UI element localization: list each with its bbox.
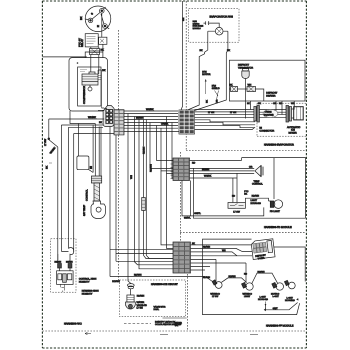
svg-text:4-WIRE: 4-WIRE [265, 111, 273, 114]
svg-text:RELAY: RELAY [81, 39, 84, 47]
label FAN MOTOR with arrow [202, 71, 211, 94]
ice maker dashed box [257, 103, 306, 136]
svg-text:RD: RD [192, 161, 196, 164]
thermostat barrel [91, 176, 101, 201]
compressor housing [69, 52, 107, 111]
border frame dashed [42, 1, 306, 348]
svg-text:LT GN: LT GN [230, 111, 237, 114]
svg-text:WATER-D: WATER-D [210, 293, 220, 296]
automatic ice maker box [294, 107, 304, 120]
FF box right side [274, 247, 305, 282]
wires into FF connector from left [110, 127, 205, 277]
svg-text:WH: WH [130, 175, 133, 179]
svg-text:HEATER: HEATER [266, 94, 275, 97]
svg-text:GN: GN [182, 17, 185, 21]
svg-text:CONTROL, HIGH: CONTROL, HIGH [79, 278, 97, 281]
svg-text:(SQUARE): (SQUARE) [264, 114, 274, 117]
label DEFROST TERMINATOR [238, 64, 253, 70]
svg-text:LT SW: LT SW [44, 138, 47, 146]
wire staple joint [58, 248, 74, 263]
label BK arrow at compressor [80, 16, 83, 20]
svg-text:WH/BK: WH/BK [88, 116, 96, 119]
FD light switch box [228, 203, 245, 214]
svg-text:M: M [97, 25, 99, 28]
rotated label RELAY-PTC START [79, 38, 85, 47]
evaporator fan motor [187, 23, 228, 111]
wire GN/Y tail [264, 298, 299, 311]
label LIGHT HOUSING FD [251, 199, 262, 205]
label HARNESS-HIGH HUMIDITY [82, 290, 99, 296]
svg-text:RD/WH: RD/WH [229, 275, 237, 278]
svg-text:OR: OR [216, 99, 219, 103]
svg-text:MOTOR: MOTOR [202, 73, 211, 76]
svg-text:PTC: PTC [244, 190, 249, 193]
svg-text:BK: BK [227, 49, 231, 52]
svg-text:BK: BK [46, 165, 49, 169]
svg-text:RD/BK: RD/BK [143, 147, 146, 154]
svg-text:S/C TEMP: S/C TEMP [83, 204, 86, 216]
label DEFROST HEATER [266, 92, 278, 98]
svg-text:COLOR AND/OR MARKING: COLOR AND/OR MARKING [155, 323, 182, 326]
FF bundle wires to timer [191, 245, 253, 283]
svg-text:SHIELD: SHIELD [212, 87, 220, 90]
identify leads dashes [124, 323, 151, 325]
svg-text:BK: BK [99, 121, 102, 124]
svg-text:HOUS-NG: HOUS-NG [258, 298, 268, 301]
svg-text:DUAL: DUAL [154, 308, 160, 311]
svg-text:MAKER: MAKER [289, 132, 298, 135]
fan shield ground [212, 85, 220, 103]
label TEMP CONTROL [252, 180, 263, 186]
section divider dashed vertical evaporator [185, 1, 187, 150]
svg-text:GN/Y: GN/Y [273, 307, 279, 310]
svg-text:BK/WH: BK/WH [55, 261, 62, 264]
connector stubs BK/WH [55, 261, 74, 268]
bulb motr-d light 2 [271, 283, 283, 299]
svg-text:BK: BK [200, 49, 204, 52]
wire BK inside housing [98, 49, 106, 109]
svg-text:CONNECTOR: CONNECTOR [259, 130, 274, 133]
svg-text:BK/WH: BK/WH [66, 261, 73, 264]
note text block [193, 20, 204, 30]
IM connector wires [259, 110, 286, 118]
wire to light switch [48, 119, 50, 138]
svg-text:DEFROST: DEFROST [238, 64, 250, 67]
wires compressor housing to connector [102, 109, 107, 111]
svg-text:HARNESS-ICE CIRCUIT: HARNESS-ICE CIRCUIT [151, 283, 178, 286]
label WH/BK diagonal [49, 146, 56, 154]
svg-text:PTC ST: PTC ST [79, 38, 82, 47]
svg-text:BK: BK [102, 69, 106, 72]
label WATER VALVE [137, 301, 148, 310]
wire GN/YL FD [182, 181, 264, 220]
svg-text:FAN: FAN [202, 71, 207, 74]
ice circuit dashed box [119, 280, 185, 317]
svg-text:IM: IM [259, 127, 262, 130]
svg-text:BK: BK [80, 16, 83, 20]
svg-text:MOTR-D: MOTR-D [271, 293, 280, 296]
svg-text:RD/WH: RD/WH [258, 270, 266, 273]
fuse component on wire [142, 198, 146, 211]
svg-text:AUTOMATIC: AUTOMATIC [287, 126, 301, 129]
svg-text:BK: BK [101, 49, 105, 52]
section divider dashed vertical center [118, 30, 120, 280]
rotated wire labels BK OR [206, 99, 219, 103]
svg-text:DEFROST: DEFROST [266, 92, 278, 95]
svg-text:LIGHT: LIGHT [251, 199, 258, 202]
rotated label COMPRESSOR [83, 86, 86, 104]
svg-text:WH: WH [248, 83, 252, 86]
section divider dashed horizontal HARNESS-FD MODULE bottom [180, 231, 306, 233]
svg-text:LT GN: LT GN [208, 111, 215, 114]
svg-text:HOUSING: HOUSING [285, 299, 295, 302]
label HARNESS-FD MODULE [264, 226, 292, 229]
svg-text:ICE: ICE [291, 129, 295, 132]
svg-text:WH/BK: WH/BK [146, 108, 154, 111]
svg-text:HARNESS-EVAPORATOR: HARNESS-EVAPORATOR [264, 144, 294, 147]
defrost timer box [251, 239, 275, 261]
wire RD/WH to water valve [112, 280, 144, 298]
FF wire labels [192, 242, 226, 252]
ground wire GN vertical [181, 1, 185, 110]
wires below defrost box [247, 101, 295, 114]
connector evaporator harness (dark) [179, 110, 195, 134]
damper temp control [255, 165, 263, 177]
svg-text:RD: RD [232, 195, 236, 198]
section divider dashed vertical FD/FF [180, 152, 187, 331]
svg-text:MODELS: MODELS [193, 27, 202, 30]
svg-text:S: S [91, 12, 95, 16]
svg-text:L-GHT: L-GHT [260, 296, 267, 299]
label HARNESS-WC [64, 323, 82, 326]
svg-text:LT SW: LT SW [233, 211, 240, 214]
wire thermostat feed [70, 111, 101, 176]
svg-text:RD/WH: RD/WH [252, 195, 260, 198]
rotated label BK lower [46, 163, 53, 169]
svg-text:WH: WH [222, 249, 226, 252]
FD wire rows [190, 158, 275, 199]
svg-text:RD/WH: RD/WH [203, 246, 211, 249]
label VALVE WATER DUAL [154, 305, 183, 327]
svg-text:BK: BK [230, 83, 234, 86]
svg-text:VALVE-FD: VALVE-FD [137, 304, 148, 307]
svg-text:TEMP: TEMP [254, 180, 261, 183]
svg-text:LT GN: LT GN [137, 307, 144, 310]
svg-text:EVAPORATOR FAN: EVAPORATOR FAN [210, 16, 233, 19]
label LIGHT HOUSING w arrow [258, 296, 268, 307]
svg-text:WH/BK: WH/BK [49, 146, 56, 154]
svg-text:BK/WH: BK/WH [202, 168, 210, 171]
svg-text:RD/WH: RD/WH [137, 295, 145, 298]
label HARNESS-FF MODULE [266, 325, 294, 328]
identify leads text [155, 321, 182, 327]
FD module connector [173, 158, 190, 181]
bottom tick marks [85, 332, 258, 335]
humidity control dashed box [51, 239, 76, 292]
wire left pair from connector [61, 125, 114, 252]
svg-text:L-GHT: L-GHT [273, 295, 280, 298]
bulb water-d lt sw [210, 280, 222, 298]
wire band between connectors [124, 111, 179, 131]
IM connector right [286, 106, 294, 123]
central vertical wires [128, 114, 173, 285]
FD module box [193, 158, 305, 219]
overload protector [90, 44, 103, 54]
compressor terminal circle [85, 6, 111, 37]
FD light switch wires [232, 173, 249, 202]
svg-text:HOUS-NG: HOUS-NG [251, 202, 262, 205]
relay-PTC start box [85, 34, 107, 47]
FD wire labels [192, 161, 253, 177]
section divider dashed horizontal bottom strip [42, 330, 306, 332]
label 4-WIRE SQUARE oval [263, 110, 278, 118]
IM connector left [254, 106, 260, 123]
label CONTROL HIGH HUMIDITY [79, 278, 97, 284]
svg-text:FD LIGHT: FD LIGHT [270, 210, 281, 213]
svg-text:WH/BK: WH/BK [204, 175, 212, 178]
FD light bulb [245, 195, 282, 213]
compressor terminal labels [91, 12, 100, 28]
svg-text:LT SW: LT SW [212, 295, 218, 298]
svg-text:LIGHT: LIGHT [244, 295, 251, 298]
evaporator fan dashed box [189, 9, 239, 43]
rotated label CONTROL TEMP [83, 189, 89, 216]
defrost terminator symbol [242, 69, 249, 119]
defrost heater elements [229, 83, 263, 101]
svg-text:WATER-D: WATER-D [243, 293, 253, 296]
svg-text:WATER: WATER [137, 301, 145, 304]
rotated label RD/BK on wire [130, 147, 152, 179]
wire labels band [136, 108, 169, 125]
svg-text:HARNESS-WC: HARNESS-WC [64, 323, 82, 326]
svg-text:HUMIDITY: HUMIDITY [79, 280, 90, 283]
section divider dashed horizontal HARNESS-EVAPORATOR bottom [186, 150, 306, 152]
svg-text:BK: BK [247, 102, 250, 105]
wire WH/BK from left [49, 116, 104, 119]
svg-text:CONTROL: CONTROL [86, 189, 89, 201]
control high humidity box [57, 268, 74, 292]
label HARNESS-EVAPORATOR [264, 144, 294, 147]
svg-text:OR/BK: OR/BK [161, 123, 169, 126]
water valve solenoid [125, 295, 135, 309]
svg-text:RD/WH: RD/WH [112, 280, 120, 283]
svg-text:HARNESS-FF MODULE: HARNESS-FF MODULE [266, 325, 294, 328]
svg-text:COMPRESSOR: COMPRESSOR [83, 86, 86, 104]
svg-text:GN/YL: GN/YL [184, 217, 191, 220]
connector D-shell (harness-WC to main) [103, 106, 114, 127]
connector block central (2x7) [114, 110, 124, 135]
evaporator bus wires [195, 110, 256, 130]
svg-text:HUMIDITY: HUMIDITY [82, 292, 93, 295]
label HARNESS-ICE CIRCUIT [151, 283, 178, 286]
run capacitor symbol [204, 21, 210, 25]
door switch [48, 138, 58, 260]
zigzag RD/WH wires [203, 270, 278, 283]
bulb light housing right [284, 280, 295, 302]
svg-text:BK/WH: BK/WH [136, 117, 144, 120]
compressor motor [80, 55, 102, 91]
svg-text:RD: RD [244, 273, 248, 276]
svg-text:BK: BK [206, 100, 209, 103]
label IM CONNECTOR [259, 127, 274, 133]
label AUTOMATIC ICE MAKER [287, 126, 301, 135]
svg-text:HARNESS-FD MODULE: HARNESS-FD MODULE [264, 226, 292, 229]
rotated label LT SW [44, 138, 47, 146]
FD grid left stubs [171, 160, 174, 178]
svg-text:OR: OR [249, 166, 253, 169]
svg-text:RD/WH: RD/WH [150, 164, 153, 172]
thermostat sensing bulb [91, 201, 106, 219]
FF module box left/top [203, 239, 300, 315]
FF module connector [173, 242, 191, 273]
wire stub below ice box [163, 317, 187, 319]
defrost heater box [229, 60, 305, 101]
wire labels BK BR [200, 49, 231, 52]
svg-text:CONTROL: CONTROL [252, 183, 263, 186]
svg-text:L-GHT: L-GHT [287, 297, 294, 300]
svg-text:FAN: FAN [212, 85, 217, 88]
wire BK from frame to compressor [42, 56, 86, 58]
temp control switch box [77, 124, 93, 173]
svg-text:HARNESS-HIGH: HARNESS-HIGH [82, 290, 99, 293]
svg-text:BK: BK [244, 193, 247, 196]
bulb motr-d light [242, 283, 254, 299]
svg-text:RD/WH: RD/WH [134, 273, 142, 276]
svg-text:GN/YL: GN/YL [194, 212, 201, 215]
label EVAPORATOR FAN [210, 16, 233, 19]
